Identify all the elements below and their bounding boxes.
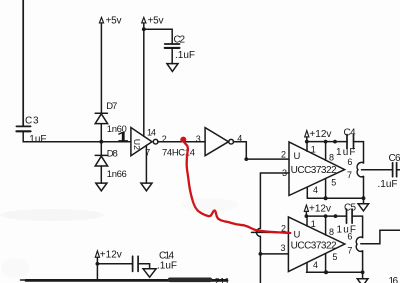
- junction dot: [244, 157, 248, 161]
- gate driver U UCC37322 (lower): [288, 217, 344, 272]
- capacitor C4: [347, 135, 354, 149]
- svg-text:D7: D7: [106, 101, 117, 112]
- ground right of C14: [143, 269, 156, 277]
- pin 5 wire: [325, 179, 327, 199]
- pin 4 wire: [306, 187, 308, 198]
- svg-text:.1uF: .1uF: [378, 179, 398, 190]
- svg-text:3: 3: [281, 243, 286, 253]
- inverter U2 74HC14: [131, 128, 158, 156]
- svg-text:4: 4: [313, 260, 318, 270]
- ground rail upper driver: [307, 197, 363, 199]
- svg-text:74HC14: 74HC14: [162, 148, 195, 159]
- node junction dot: [99, 140, 103, 144]
- svg-text:8: 8: [329, 152, 334, 162]
- svg-text:+5v: +5v: [106, 15, 122, 26]
- pin 5 wire: [325, 254, 327, 273]
- svg-text:1uF: 1uF: [336, 147, 356, 158]
- svg-text:2: 2: [281, 150, 286, 160]
- svg-text:7: 7: [347, 245, 352, 255]
- inverter gate 2: [205, 128, 233, 156]
- output curl pins 6/7: [357, 162, 363, 176]
- +12v supply (lower driver): [304, 205, 308, 216]
- svg-text:1n66: 1n66: [107, 169, 127, 180]
- ground below D8: [96, 183, 107, 191]
- svg-text:+12v: +12v: [100, 250, 122, 261]
- wire gate2 output down to UCC1 input: [234, 142, 290, 159]
- svg-text:3: 3: [196, 134, 201, 144]
- svg-text:6: 6: [347, 157, 352, 167]
- wire curl down to ground rail: [363, 176, 365, 198]
- svg-text:5: 5: [331, 178, 336, 188]
- ground below C2: [167, 64, 178, 72]
- wire C14 to ground: [138, 264, 150, 269]
- junction dot: [96, 262, 100, 266]
- svg-text:U: U: [294, 229, 301, 240]
- svg-text:UCC37322: UCC37322: [291, 165, 337, 176]
- wire C4 to output node: [354, 142, 364, 163]
- pin 4 wire: [306, 263, 308, 273]
- svg-text:.1uF: .1uF: [157, 261, 177, 272]
- wire C2 to ground: [171, 49, 173, 64]
- pin 8 wire: [325, 216, 327, 235]
- ground below lower driver (clipped): [362, 272, 364, 279]
- wire D8 to ground: [100, 166, 102, 183]
- +5v supply (left): [99, 17, 103, 113]
- +5v supply (second): [142, 17, 146, 136]
- bus overdraw segment: [170, 277, 210, 282]
- junction dot +5v to C2: [142, 27, 146, 31]
- capacitor C14: [133, 256, 139, 271]
- wire curl down to ground rail lower: [362, 251, 364, 272]
- pin 1 wire: [306, 216, 308, 226]
- svg-text:14: 14: [147, 127, 156, 137]
- ground below pin 7: [141, 183, 152, 191]
- wire to lower driver pin 3: [260, 253, 288, 255]
- bottom bus (thick): [26, 279, 227, 282]
- svg-text:U: U: [294, 151, 301, 162]
- svg-text:16: 16: [389, 276, 399, 283]
- capacitor C6: [393, 163, 397, 177]
- svg-text:.1uF: .1uF: [175, 50, 195, 61]
- pin 2 wire of lower driver (under red mark): [252, 231, 289, 233]
- pin 1 wire: [306, 142, 308, 152]
- svg-text:C4: C4: [344, 127, 356, 138]
- ground below upper driver: [363, 198, 365, 204]
- capacitor C2: [165, 44, 180, 48]
- wire node to D8: [100, 142, 102, 156]
- pin 7 wire to ground: [145, 145, 147, 183]
- wire D7 to node: [100, 124, 102, 142]
- svg-text:.1uF: .1uF: [27, 134, 47, 145]
- pin 3 wire from gate, down to lower driver pin 3: [260, 173, 289, 228]
- svg-text:5: 5: [332, 252, 337, 262]
- wire +12v node down to bottom bus: [96, 264, 98, 280]
- red annotation stroke: [180, 137, 290, 233]
- +12v supply (upper driver): [305, 131, 309, 142]
- output wire lower driver: [361, 230, 400, 244]
- svg-text:C5: C5: [344, 202, 356, 213]
- ground rail lower driver: [307, 271, 363, 273]
- svg-text:UCC37322: UCC37322: [291, 240, 337, 251]
- svg-text:6: 6: [347, 232, 352, 242]
- junction dot pin3 net: [259, 252, 263, 256]
- svg-text:211: 211: [215, 277, 230, 283]
- svg-text:+5v: +5v: [148, 15, 164, 26]
- svg-text:C6: C6: [389, 153, 400, 164]
- svg-text:+12v: +12v: [309, 129, 331, 140]
- vdd rail upper: [307, 141, 347, 143]
- svg-text:4: 4: [313, 185, 318, 195]
- output curl pins 6/7 lower: [356, 237, 362, 251]
- wire to C2: [144, 29, 172, 44]
- wire hop over pin2 net: [256, 228, 260, 236]
- wire C3 to main node: [23, 132, 131, 142]
- svg-text:1: 1: [311, 219, 316, 229]
- +12v supply (C14): [95, 251, 99, 264]
- svg-text:C3: C3: [25, 116, 39, 127]
- faint scan smudges: [0, 198, 238, 278]
- diode D8: [95, 155, 107, 166]
- svg-text:2: 2: [162, 134, 167, 144]
- svg-text:7: 7: [347, 170, 352, 180]
- wire inverter output to second inverter: [158, 141, 205, 143]
- svg-text:C2: C2: [174, 35, 186, 46]
- svg-text:+12v: +12v: [309, 204, 331, 215]
- output wire to C6: [362, 169, 393, 171]
- svg-text:1uF: 1uF: [337, 224, 357, 235]
- vdd rail lower: [306, 215, 346, 217]
- svg-text:1: 1: [117, 129, 129, 144]
- pin 8 wire: [325, 142, 327, 161]
- diode D7: [95, 113, 107, 123]
- svg-text:8: 8: [329, 227, 334, 237]
- wire C6 to right edge: [397, 169, 400, 171]
- svg-text:1: 1: [311, 144, 316, 154]
- svg-text:U2: U2: [132, 139, 142, 150]
- capacitor C3: [16, 126, 30, 131]
- capacitor C5: [347, 209, 353, 223]
- svg-text:D8: D8: [107, 149, 118, 160]
- wire C5 to output node: [352, 216, 363, 238]
- wire to C14: [97, 263, 132, 265]
- gate driver U UCC37322 (upper): [289, 142, 345, 196]
- wire left vertical feeding C3: [22, 0, 24, 126]
